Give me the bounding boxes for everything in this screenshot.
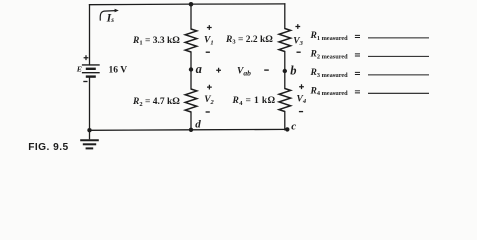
svg-text:R2 = 4.7 kΩ: R2 = 4.7 kΩ (132, 97, 180, 108)
svg-text:R2 measured: R2 measured (310, 50, 349, 61)
svg-text:a: a (196, 62, 202, 76)
svg-text:R1 = 3.3 kΩ: R1 = 3.3 kΩ (132, 36, 180, 47)
svg-text:E: E (76, 64, 82, 73)
svg-text:Is: Is (106, 10, 115, 24)
svg-text:R4 = 1 kΩ: R4 = 1 kΩ (232, 96, 276, 107)
svg-text:16 V: 16 V (109, 66, 128, 76)
svg-text:R3 = 2.2 kΩ: R3 = 2.2 kΩ (225, 35, 273, 46)
svg-text:V4: V4 (297, 94, 307, 105)
svg-text:R4 measured: R4 measured (310, 86, 349, 97)
svg-text:R1 measured: R1 measured (310, 31, 349, 42)
svg-text:R3 measured: R3 measured (310, 68, 349, 79)
svg-text:V1: V1 (204, 36, 214, 47)
svg-text:Vab: Vab (237, 66, 251, 77)
svg-text:b: b (290, 63, 296, 77)
svg-text:V2: V2 (204, 95, 214, 106)
svg-text:FIG. 9.5: FIG. 9.5 (28, 142, 68, 153)
svg-text:d: d (195, 118, 201, 130)
svg-text:c: c (291, 120, 296, 132)
svg-text:V3: V3 (293, 36, 303, 47)
